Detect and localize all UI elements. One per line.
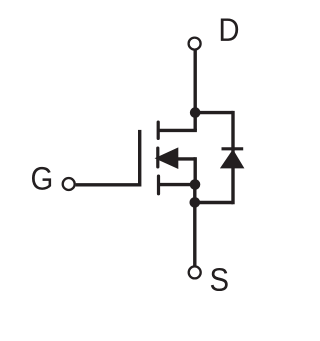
wire G lead [76, 183, 140, 186]
transistor Q1 body channel bar [156, 148, 159, 167]
transistor Q1 drain channel bar [157, 122, 160, 138]
transistor Q1 gate electrode [138, 130, 141, 187]
wire Q1 source lead [159, 183, 196, 186]
wire drain vertical [193, 50, 196, 130]
transistor Q1 body arrow [155, 147, 179, 169]
wire diode branch vertical [231, 111, 234, 204]
label D [221, 18, 238, 40]
junction node source upper [190, 179, 201, 190]
label G [32, 167, 51, 190]
wire Q1 body lead vertical [193, 157, 196, 184]
wire Q1 drain lead [158, 129, 197, 132]
wire Q1 body lead horizontal [177, 157, 195, 160]
wire source to S vertical [193, 185, 196, 266]
diode D1 cathode bar [222, 147, 244, 150]
terminal G pad [63, 178, 75, 190]
junction node source lower [190, 197, 201, 208]
diode D1 triangle [220, 149, 245, 168]
terminal D pad [189, 38, 201, 50]
transistor Q1 source channel bar [157, 176, 160, 194]
label S [211, 268, 228, 291]
terminal S pad [189, 266, 201, 278]
junction node drain [190, 107, 201, 118]
wire diode anode to source [193, 201, 233, 204]
wire drain to diode cathode [195, 111, 233, 114]
